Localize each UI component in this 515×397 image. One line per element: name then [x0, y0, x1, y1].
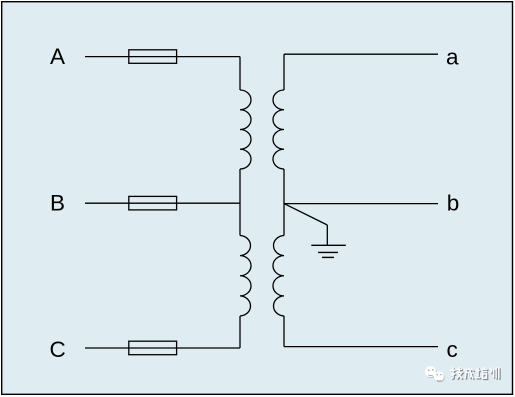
primary winding W1 (A-B) — [240, 90, 251, 169]
wire a — [284, 53, 438, 55]
secondary winding W3 (a-b) — [273, 90, 284, 169]
wire C corner up — [239, 316, 241, 348]
svg-text:B: B — [50, 190, 65, 215]
fuse FU1 — [129, 50, 177, 64]
fuse FU2 — [129, 196, 177, 210]
wire C — [85, 347, 240, 349]
wire A corner down — [239, 57, 241, 90]
primary winding W2 (B-C) — [240, 236, 251, 317]
ground — [311, 245, 346, 257]
wire b — [284, 203, 438, 205]
secondary winding W4 (b-c) — [273, 236, 284, 317]
wire c — [284, 346, 438, 348]
svg-text:C: C — [49, 337, 65, 362]
wire secondary mid (through node b junction) — [283, 169, 285, 236]
svg-text:c: c — [446, 337, 457, 362]
svg-text:b: b — [447, 190, 460, 215]
wire A — [85, 56, 240, 58]
wire ground diagonal — [284, 204, 327, 225]
fuse FU3 — [129, 341, 177, 355]
wire a corner down — [283, 54, 285, 90]
wire primary mid (through node B junction) — [239, 169, 241, 236]
svg-text:a: a — [446, 45, 459, 70]
wire c corner up — [283, 316, 285, 347]
svg-text:A: A — [50, 44, 65, 69]
watermark text 技成培训 shadow — [452, 368, 500, 380]
wire ground vertical — [326, 225, 328, 245]
wire B — [85, 202, 240, 204]
watermark text 技成培训 (white emboss) — [451, 367, 499, 379]
watermark logo (two chat bubbles) — [425, 366, 445, 382]
